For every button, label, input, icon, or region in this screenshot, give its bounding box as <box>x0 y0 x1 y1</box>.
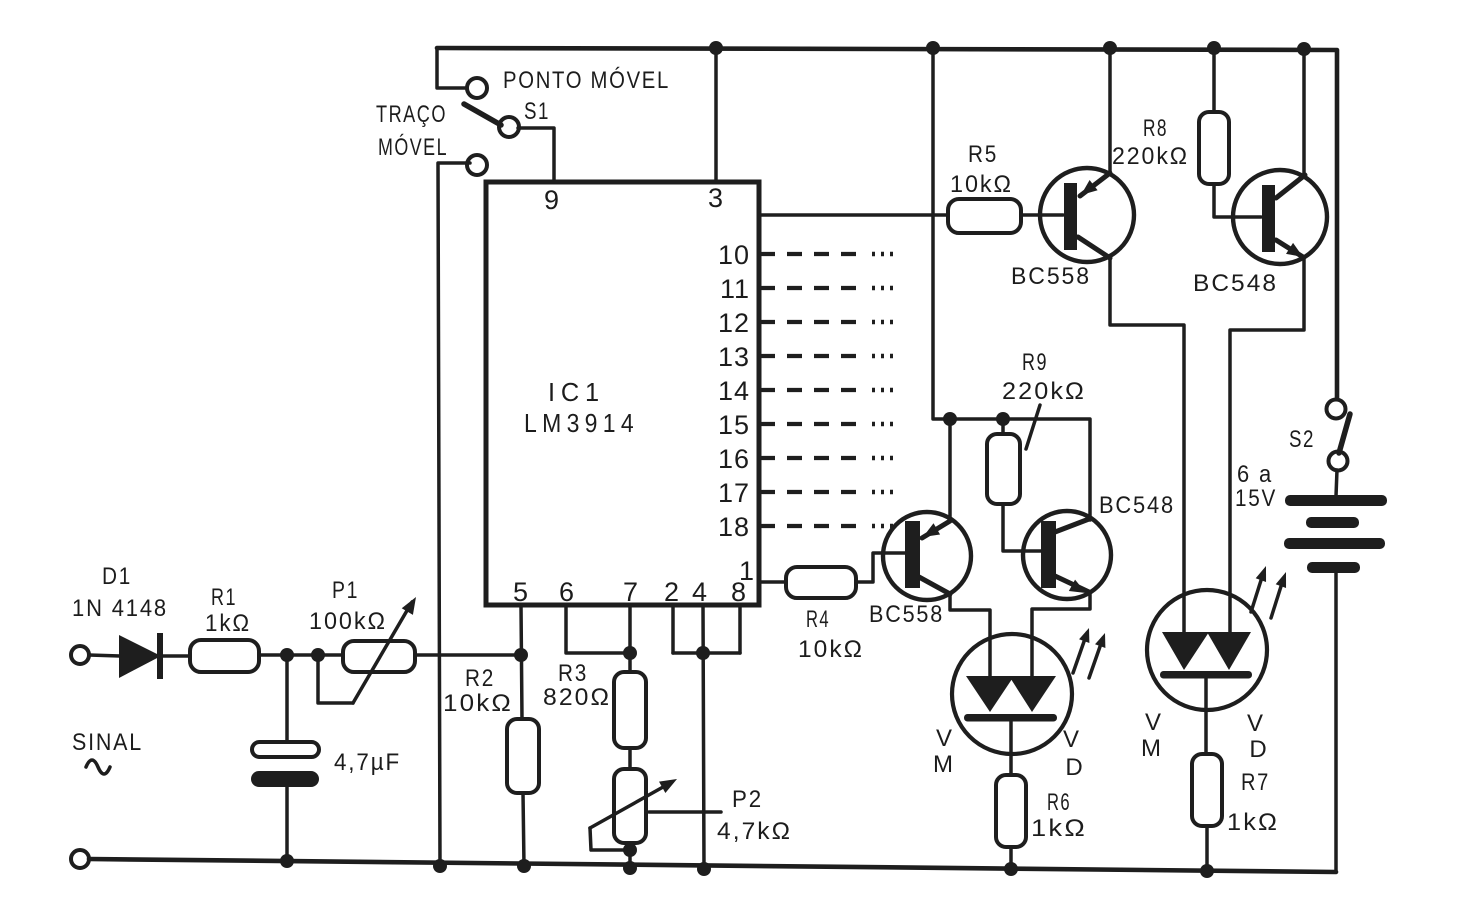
wire P2 to rail <box>628 843 632 868</box>
wire LED1 cathode to R6 <box>1009 721 1013 775</box>
svg-text:V: V <box>1247 710 1265 737</box>
svg-text:R7: R7 <box>1241 769 1270 796</box>
pin 13 dashed output <box>718 342 893 372</box>
wire Q2 collector to rail <box>1302 49 1306 176</box>
svg-text:4,7kΩ: 4,7kΩ <box>717 818 792 845</box>
wire R6 to rail <box>1009 847 1013 869</box>
wire pin 3 output to R5 <box>759 213 948 217</box>
svg-text:D: D <box>1249 736 1268 763</box>
svg-text:10kΩ: 10kΩ <box>950 171 1013 198</box>
svg-text:14: 14 <box>718 376 750 406</box>
node Q1 emitter <box>1103 41 1117 55</box>
svg-text:820Ω: 820Ω <box>543 684 611 711</box>
svg-text:V: V <box>1145 709 1163 736</box>
svg-text:6: 6 <box>559 577 575 607</box>
transistor Q3 BC558 <box>883 512 971 600</box>
wire R3 to P2 <box>628 748 632 769</box>
node R6 ground <box>1004 862 1018 876</box>
wire S2 to battery <box>1336 470 1337 496</box>
svg-text:3: 3 <box>708 183 724 213</box>
battery B1 <box>1284 495 1387 573</box>
svg-text:220kΩ: 220kΩ <box>1112 143 1189 170</box>
wire R9 to Q4 base <box>1003 504 1041 551</box>
svg-text:BC548: BC548 <box>1193 270 1278 297</box>
wire R1 to P1 <box>259 653 343 657</box>
svg-text:R9: R9 <box>1022 349 1048 376</box>
svg-text:R1: R1 <box>211 584 237 611</box>
svg-text:10kΩ: 10kΩ <box>798 636 864 663</box>
svg-text:M: M <box>933 751 955 778</box>
wire C1 to ground rail <box>285 787 289 861</box>
capacitor C1 4.7uF <box>251 742 319 787</box>
pin 12 dashed output <box>718 308 893 338</box>
svg-text:1kΩ: 1kΩ <box>1227 809 1279 836</box>
LED2 light arrows <box>1251 564 1291 618</box>
node pin3 top <box>709 41 723 55</box>
svg-text:LM3914: LM3914 <box>524 408 639 438</box>
svg-text:D1: D1 <box>102 563 132 590</box>
wire R7 to rail <box>1205 826 1209 871</box>
wire rail to S1 ponto movel contact <box>437 48 469 88</box>
svg-text:S1: S1 <box>524 98 550 125</box>
svg-text:10: 10 <box>718 240 750 270</box>
P2 wiper arrow <box>590 773 680 828</box>
R9 leader line <box>1026 405 1040 449</box>
svg-text:9: 9 <box>544 185 560 215</box>
wire pin8 down <box>738 605 742 653</box>
svg-text:IC1: IC1 <box>548 377 605 407</box>
svg-text:1kΩ: 1kΩ <box>205 610 251 637</box>
wire battery to ground rail <box>1334 573 1338 872</box>
pin 10 dashed output <box>718 240 893 270</box>
wire D1 to R1 <box>163 654 190 658</box>
node P1 wiper tap <box>311 648 325 662</box>
svg-text:16: 16 <box>718 444 750 474</box>
wire R8 to Q2 base <box>1214 184 1261 217</box>
svg-text:6 a: 6 a <box>1237 461 1273 488</box>
wire Q3 collector to LED1 VM anode <box>950 594 990 677</box>
transistor Q4 BC548 <box>1023 511 1111 599</box>
node Q2 collector <box>1297 42 1311 56</box>
svg-text:100kΩ: 100kΩ <box>309 608 387 635</box>
node P2 ground <box>623 861 637 875</box>
wire rail to R8 <box>1212 48 1216 112</box>
transistor Q2 BC548 <box>1233 170 1327 264</box>
IC U1 LM3914 box <box>486 182 759 605</box>
node P2 wiper-bottom <box>623 843 637 857</box>
svg-text:1kΩ: 1kΩ <box>1031 815 1087 842</box>
wire node to C1 <box>285 655 289 742</box>
svg-text:R3: R3 <box>558 660 588 687</box>
wire pin2 down <box>671 605 675 653</box>
svg-text:TRAÇO: TRAÇO <box>376 101 447 128</box>
resistor R1 <box>190 640 259 672</box>
wire P2 wiper hook <box>590 828 630 850</box>
resistor R4 <box>786 567 856 598</box>
wire P1 to pin5 column <box>415 653 521 657</box>
svg-text:1N 4148: 1N 4148 <box>72 595 168 622</box>
resistor R3 <box>614 672 646 748</box>
node pin4 link <box>696 646 710 660</box>
potentiometer P2 <box>614 769 646 843</box>
input terminal <box>71 646 89 664</box>
pin 15 dashed output <box>718 410 893 440</box>
resistor R7 <box>1192 754 1222 826</box>
wire bottom ground rail <box>89 859 1336 872</box>
switch S1 <box>464 78 519 137</box>
resistor R2 <box>507 719 539 793</box>
wire R5 to Q1 base <box>1021 213 1063 217</box>
wire pin5 column <box>521 605 522 719</box>
node R7 ground <box>1200 864 1214 878</box>
svg-text:SINAL: SINAL <box>72 729 143 756</box>
svg-text:4: 4 <box>692 577 708 607</box>
switch S2 <box>1327 400 1351 471</box>
node pin5 signal <box>514 648 528 662</box>
svg-text:BC548: BC548 <box>1099 492 1175 519</box>
wire top supply rail <box>437 48 1337 400</box>
svg-text:13: 13 <box>718 342 750 372</box>
pin 18 dashed output <box>718 512 893 542</box>
wire Q2 emitter to LED2 VD anode <box>1230 257 1304 633</box>
ground terminal <box>71 850 89 868</box>
svg-text:12: 12 <box>718 308 750 338</box>
resistor R8 <box>1199 112 1229 184</box>
wire R9 top lead <box>1001 419 1005 434</box>
node pin4 ground <box>697 862 711 876</box>
wire Q1 emitter to rail <box>1108 48 1112 173</box>
diode D1 1N4148 <box>119 633 163 679</box>
transistor Q1 BC558 <box>1040 168 1134 262</box>
P1 wiper arrow <box>353 594 422 703</box>
node R2 ground <box>517 859 531 873</box>
wire pin 3 to rail <box>714 48 718 182</box>
wire Q4 emitter to LED1 VD anode <box>1032 592 1090 677</box>
svg-text:15: 15 <box>718 410 750 440</box>
wire pins 2-8 link <box>673 651 740 655</box>
resistor R5 <box>948 199 1021 233</box>
resistor R9 <box>987 434 1020 504</box>
node R9 top <box>996 412 1010 426</box>
svg-text:PONTO MÓVEL: PONTO MÓVEL <box>503 67 670 94</box>
wire pin7 down <box>628 605 632 672</box>
wire Q1 collector to LED2 VM anode <box>1110 258 1184 633</box>
svg-text:15V: 15V <box>1235 485 1277 512</box>
wire traco movel down left side <box>438 163 470 866</box>
node C1 ground <box>280 854 294 868</box>
svg-text:7: 7 <box>623 577 639 607</box>
svg-text:V: V <box>936 725 954 752</box>
svg-text:S2: S2 <box>1289 426 1315 453</box>
svg-text:BC558: BC558 <box>1011 263 1091 290</box>
svg-text:10kΩ: 10kΩ <box>443 690 513 717</box>
pin 17 dashed output <box>718 478 893 508</box>
svg-text:BC558: BC558 <box>869 601 944 628</box>
wire S1 pole to pin 9 <box>518 128 554 182</box>
wire pin 1 to R4 <box>759 580 786 584</box>
svg-text:4,7µF: 4,7µF <box>334 749 401 776</box>
svg-text:18: 18 <box>718 512 750 542</box>
pin 14 dashed output <box>718 376 893 406</box>
sine symbol <box>86 760 110 774</box>
svg-text:P1: P1 <box>332 577 359 604</box>
svg-text:8: 8 <box>731 577 747 607</box>
svg-text:17: 17 <box>718 478 750 508</box>
wire pin6 down and over to pin7 <box>566 605 630 653</box>
svg-text:5: 5 <box>513 577 529 607</box>
node Q3 emitter branch <box>943 412 957 426</box>
pin 16 dashed output <box>718 444 893 474</box>
node traco movel ground <box>433 859 447 873</box>
wire Q3 emitter up <box>948 419 952 521</box>
LED1 light arrows <box>1073 626 1110 678</box>
svg-text:R2: R2 <box>465 665 495 692</box>
potentiometer P1 <box>343 641 415 672</box>
wire rail branch to mid stage <box>933 48 1090 520</box>
LED1 bicolor <box>952 634 1072 754</box>
svg-text:2: 2 <box>664 577 680 607</box>
svg-text:M: M <box>1141 735 1163 762</box>
wire R4 to Q3 base <box>856 553 905 582</box>
wire P1 wiper hook <box>318 655 353 703</box>
wire R2 to rail <box>523 793 524 866</box>
svg-text:MÓVEL: MÓVEL <box>378 134 448 161</box>
traco movel contact <box>467 155 487 175</box>
resistor R6 <box>996 775 1026 847</box>
svg-text:P2: P2 <box>732 786 763 813</box>
svg-text:R8: R8 <box>1143 115 1168 142</box>
LED2 bicolor <box>1147 590 1267 710</box>
wire pin4 to rail <box>703 605 704 869</box>
node mid branch <box>926 41 940 55</box>
wire LED2 cathode to R7 <box>1204 679 1208 754</box>
svg-text:R5: R5 <box>968 141 998 168</box>
svg-text:V: V <box>1063 726 1081 753</box>
node C1 tap <box>280 648 294 662</box>
svg-text:R6: R6 <box>1047 789 1071 816</box>
wire input to D1 <box>89 655 120 656</box>
P2 leader line <box>649 810 721 814</box>
node R8 top <box>1207 41 1221 55</box>
svg-text:R4: R4 <box>806 606 830 633</box>
svg-text:220kΩ: 220kΩ <box>1002 378 1086 405</box>
svg-text:D: D <box>1065 754 1084 781</box>
node pins 6-7 <box>623 646 637 660</box>
pin 11 dashed output <box>720 274 893 304</box>
svg-text:11: 11 <box>720 274 750 304</box>
